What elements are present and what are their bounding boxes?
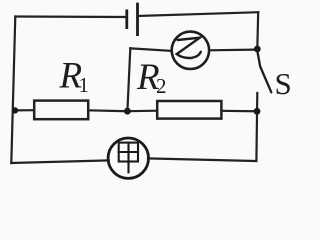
label R2 <box>136 57 167 98</box>
wire voltmeter to left corner <box>130 48 171 51</box>
ammeter label jia glyph <box>119 143 138 173</box>
wire bottom-left to ammeter <box>11 160 108 163</box>
wire R2 to node C <box>221 110 257 113</box>
resistor R1 <box>34 101 88 120</box>
voltmeter U1 circle <box>172 32 209 69</box>
node B junction dot <box>124 108 131 115</box>
node C junction dot <box>254 108 261 115</box>
wire top-right from battery to corner <box>138 12 259 16</box>
svg-text:2: 2 <box>156 74 167 98</box>
wire right upper vertical <box>256 12 259 49</box>
resistor R2 <box>157 101 221 119</box>
battery cell <box>127 3 138 36</box>
svg-text:1: 1 <box>79 73 90 97</box>
wire top-left from battery to corner <box>15 15 127 18</box>
label R1 <box>59 55 90 97</box>
wire node B to R2 <box>127 110 157 113</box>
wire node A to R1 <box>15 109 34 111</box>
wire bottom-right corner to ammeter <box>148 158 256 161</box>
node A junction dot <box>12 107 18 113</box>
wire junction to voltmeter <box>209 48 257 51</box>
wire left vertical <box>11 17 15 164</box>
wire switch lower contact and right vertical down <box>255 93 258 161</box>
node top-right junction dot <box>254 46 261 53</box>
svg-text:S: S <box>275 66 292 101</box>
switch S blade <box>258 53 272 93</box>
ammeter circle <box>108 138 148 178</box>
wire vertical voltmeter branch down to node B <box>127 48 130 111</box>
wire R1 to node B <box>88 109 127 112</box>
voltmeter label yi glyph <box>177 38 201 58</box>
